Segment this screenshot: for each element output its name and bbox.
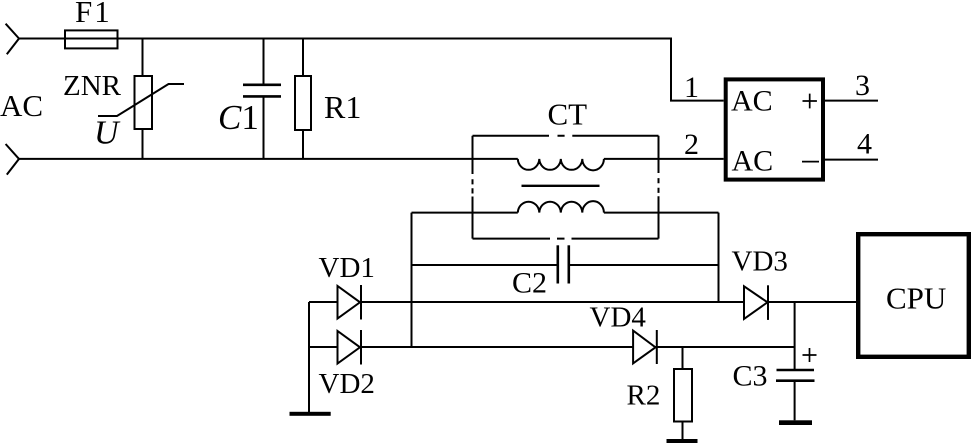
svg-text:2: 2 <box>684 128 699 161</box>
svg-text:AC: AC <box>0 88 43 123</box>
svg-text:C3: C3 <box>733 360 768 393</box>
svg-text:C2: C2 <box>512 267 547 300</box>
svg-text:VD1: VD1 <box>319 252 375 284</box>
svg-text:VD4: VD4 <box>590 302 647 334</box>
svg-text:R1: R1 <box>324 89 361 125</box>
svg-text:4: 4 <box>857 128 872 161</box>
svg-text:CPU: CPU <box>886 281 946 316</box>
svg-text:VD2: VD2 <box>319 368 375 400</box>
svg-text:1: 1 <box>684 71 699 104</box>
svg-text:AC: AC <box>731 85 773 118</box>
svg-text:3: 3 <box>855 69 870 102</box>
svg-text:CT: CT <box>548 97 588 132</box>
svg-text:ZNR: ZNR <box>63 70 122 102</box>
svg-text:C1: C1 <box>218 98 259 137</box>
svg-text:U: U <box>94 115 121 152</box>
svg-text:AC: AC <box>732 144 774 177</box>
svg-text:F1: F1 <box>75 0 112 29</box>
svg-text:VD3: VD3 <box>732 246 788 278</box>
svg-text:R2: R2 <box>627 380 661 412</box>
